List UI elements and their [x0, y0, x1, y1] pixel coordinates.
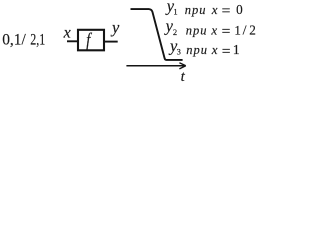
svg-text:x: x	[211, 2, 218, 17]
svg-text:1: 1	[173, 7, 177, 17]
svg-text:1: 1	[234, 22, 241, 37]
svg-text:f: f	[86, 30, 92, 51]
svg-text:t: t	[181, 69, 186, 85]
svg-text:1: 1	[233, 43, 240, 58]
svg-text:2: 2	[249, 22, 256, 37]
svg-text:при: при	[186, 43, 207, 57]
svg-text:0,1/: 0,1/	[2, 32, 26, 49]
svg-text:=: =	[222, 4, 231, 19]
svg-text:2: 2	[173, 27, 177, 37]
svg-text:=: =	[222, 44, 231, 59]
svg-text:0: 0	[236, 2, 243, 17]
svg-text:2,1: 2,1	[30, 32, 45, 49]
svg-text:=: =	[222, 24, 231, 39]
svg-text:x: x	[63, 25, 71, 42]
svg-text:x: x	[211, 42, 218, 57]
svg-text:при: при	[185, 3, 206, 17]
svg-text:при: при	[186, 23, 207, 37]
svg-text:/: /	[243, 23, 247, 38]
svg-text:x: x	[210, 22, 217, 37]
svg-text:y: y	[110, 18, 120, 37]
svg-text:3: 3	[177, 47, 181, 57]
